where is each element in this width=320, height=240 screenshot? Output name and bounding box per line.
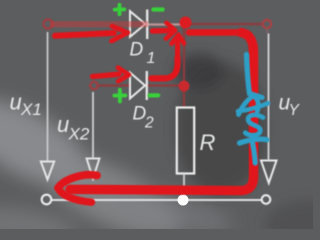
svg-text:u: u [57,112,69,137]
label u_X1 [10,90,42,120]
svg-text:X1: X1 [20,100,42,119]
svg-text:Y: Y [289,102,301,119]
voltage arrow u_X1 head [41,162,54,180]
label u_Y [279,92,301,120]
terminal circle top-left (input 1) [43,19,52,28]
red marker arrow along input 1 wire [55,26,128,41]
red marker junction dot at node K [180,17,192,29]
svg-text:u: u [10,90,22,115]
svg-text:2: 2 [144,115,154,132]
svg-text:D: D [130,40,144,61]
wire resistor bottom to bottom rail [183,174,185,200]
green polarity minus at D2 cathode [150,93,159,97]
voltage arrow u_X2 shaft [92,92,94,158]
blue handwritten letters LAST [238,55,268,164]
terminal circle bottom-left [42,195,52,205]
voltage arrow u_Y shaft [268,34,270,161]
green polarity plus at D2 anode [114,90,125,102]
green polarity minus at D1 cathode [153,7,162,11]
svg-text:X2: X2 [68,125,90,144]
terminal circle bottom-right [262,195,271,204]
red marker arrow after D1 [153,23,176,39]
label D1 [130,40,156,68]
diode D1 [130,10,147,40]
voltage arrow u_X1 shaft [47,32,49,161]
label u_X2 [57,112,90,144]
diode D2 [130,71,147,100]
label D2 [133,104,155,132]
bottom rail wire [52,199,263,201]
wire D1 cathode to node K [147,23,184,25]
wire stub below top-right terminal [266,29,268,34]
red junction dot at D2 level [179,81,190,92]
red marker arrow into D2 [93,68,130,82]
red translucent glow on top wire [50,21,148,27]
wire top-left: terminal to D1 anode [52,23,130,25]
terminal circle top-right (output +) [263,20,271,28]
wire D2 cathode to node K vertical [147,84,185,86]
voltage arrow u_X2 head [87,159,100,179]
red marker path from D2 cathode up to node K with up arrowhead [152,35,185,79]
voltage arrow u_Y head (over red) [261,161,277,184]
junction dot bottom rail at resistor [178,195,189,206]
red marker arrowhead pointing left at bottom [58,175,97,202]
wire node K to top-right terminal [184,23,263,25]
svg-text:R: R [200,130,216,155]
svg-text:1: 1 [147,50,156,67]
wire node K down to resistor R (net K) [183,24,185,107]
wire D2 terminal to D2 anode [98,84,130,86]
terminal circle D2 input (input 2) [90,82,98,90]
red marker main loop: top band, right drop, bottom band [70,32,254,190]
resistor R body [177,108,194,174]
green polarity plus at D1 anode [115,5,125,15]
